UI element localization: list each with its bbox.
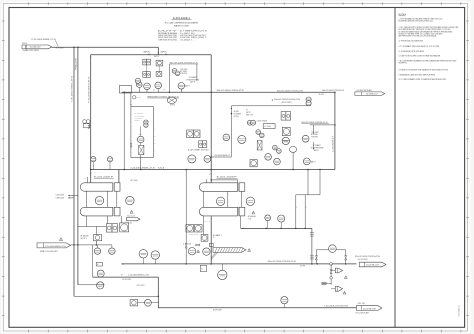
drop from manifold to drain x=96.3 — [95, 227, 97, 245]
pipe under center vessel B to outlet header — [240, 216, 242, 229]
svg-text:FLUSHING: FLUSHING — [234, 114, 242, 116]
pipe from analyzer to mixer — [140, 143, 142, 146]
PSV bypass loop top header — [316, 249, 345, 251]
svg-text:3. PHYSICAL NOTATIONS.: 3. PHYSICAL NOTATIONS. — [399, 40, 424, 43]
analyzer box with circle left drain — [94, 235, 102, 241]
controller box with circle — [201, 234, 208, 241]
svg-text:SC: SC — [97, 264, 99, 266]
svg-text:FCC GAS COMPRESSOR DISCHARGE: FCC GAS COMPRESSOR DISCHARGE — [165, 21, 199, 24]
vessel E-201D water cooler B — [199, 207, 244, 216]
instrument bubble FI — [265, 154, 272, 161]
instrument bubble above water header left 1 — [91, 157, 96, 162]
svg-text:7-20-2009-SMWL-2T-N: 7-20-2009-SMWL-2T-N — [72, 76, 74, 102]
instrument bubbles TI/TW pair — [247, 120, 252, 125]
static mixer column 2 — [257, 141, 262, 151]
off-page connector flag inlet from compressor — [26, 45, 52, 49]
svg-text:20-GGE-037: 20-GGE-037 — [363, 308, 376, 310]
svg-text:20-GGE-007: 20-GGE-007 — [30, 47, 41, 49]
warning triangle at left vessel outlet — [130, 210, 133, 213]
off-page flag drain to sewer — [37, 243, 71, 248]
instrument bubble BPT-31 — [178, 83, 185, 90]
instrument bubble PDT right — [303, 158, 310, 165]
nozzle stub top vessel C-A — [205, 179, 207, 183]
leader from riser to hatched flag — [211, 252, 216, 257]
svg-text:300-GT-2009-17051N-4T-N: 300-GT-2009-17051N-4T-N — [322, 90, 344, 92]
instrument bubbles with tag 1 — [188, 248, 195, 255]
PSV relief valve bubble — [329, 245, 337, 253]
instrument bubble near reducer — [135, 78, 140, 83]
vapor flow arrow 2 — [165, 53, 166, 55]
warning triangle above left off-page flag — [59, 238, 62, 241]
instrument bubbles right of outlet header — [265, 215, 271, 221]
instrument bubble above water header left 2 — [107, 157, 112, 162]
sample cooler box on drain riser — [96, 262, 102, 266]
nozzle stub top left vessel — [87, 177, 89, 183]
junction dots on flare header — [185, 263, 187, 265]
main gas header y=92.2 — [122, 91, 335, 93]
svg-text:300-GT-2009-17051N-4T-N: 300-GT-2009-17051N-4T-N — [217, 90, 244, 92]
riser V1 elbow line y=296.3 — [74, 295, 158, 297]
svg-text:NO POCKET: NO POCKET — [213, 310, 222, 312]
second valve near riser — [196, 244, 200, 246]
controller box FC-2009 — [263, 124, 275, 129]
inline flange on flare header — [330, 263, 333, 266]
alarm boxes pair center bottom — [186, 225, 194, 233]
instrument bubble FT — [274, 158, 281, 165]
down pipe x=92.7 to exchanger E-201A shell — [90, 55, 92, 183]
svg-text:TUB SUPP: TUB SUPP — [311, 132, 319, 134]
small circle above package box — [133, 96, 136, 99]
svg-text:SEE T 96: SEE T 96 — [246, 115, 253, 117]
svg-text:NOTE 4: NOTE 4 — [134, 120, 140, 122]
stacked pressure switch bubbles — [306, 97, 311, 102]
svg-text:GTC DVD: GTC DVD — [137, 285, 145, 287]
svg-text:BPV 2: BPV 2 — [136, 97, 141, 99]
under-vessel manifold y=226.5 — [78, 226, 108, 228]
svg-text:300-GT-2009-17051N-4T-N: 300-GT-2009-17051N-4T-N — [277, 90, 303, 92]
east riser x=334.9 down to water header — [334, 92, 336, 169]
vapor header y=54.8 — [91, 54, 212, 56]
svg-text:4"T: 4"T — [153, 90, 155, 92]
instrument bubble TV with actuator — [282, 137, 289, 144]
vapor flow arrow 1 — [148, 53, 149, 55]
instrument bubbles FE pair — [256, 130, 261, 135]
svg-text:SLOPE: SLOPE — [300, 266, 305, 268]
svg-text:4"T: 4"T — [296, 206, 298, 208]
svg-text:4 T = (2): 4 T = (2) — [183, 244, 192, 246]
cooling water supply stub with arrow — [68, 195, 78, 197]
vessel E-201A water cooler — [80, 183, 120, 191]
pipe under center vessel B x=203.5 — [203, 216, 205, 236]
leader line from label to pipe — [55, 40, 58, 46]
sample box under flare header junction — [200, 265, 206, 271]
cooling water return header y=169.5 — [118, 170, 120, 183]
instrument bubble TI between left vessels — [95, 196, 103, 204]
analyzer package box boundary — [131, 107, 153, 158]
instrument bubble PI right of left vessels — [126, 196, 134, 204]
instrument bubble at sewer header start — [145, 299, 152, 306]
switch boxes pair mid rack — [199, 141, 203, 148]
svg-text:E-201-E02E-1: E-201-E02E-1 — [173, 16, 191, 20]
feed pipe to vessel C-A — [211, 179, 238, 181]
svg-text:5. DIVIDERS PIPE DRYERS.: 5. DIVIDERS PIPE DRYERS. — [399, 51, 425, 53]
svg-text:TUBE SIDE (FOULING): TUBE SIDE (FOULING) — [158, 39, 177, 41]
notes column divider line — [394, 8, 396, 328]
inline flange 2 — [330, 277, 333, 280]
svg-text:4. TO FORWARD PIPE-LINE VALVE: 4. TO FORWARD PIPE-LINE VALVE OF TOP OF … — [399, 45, 440, 48]
riser V2 elbow line y=284.8 — [78, 284, 105, 286]
svg-text:NO POCKET: NO POCKET — [122, 279, 131, 281]
svg-text:8. PLATE NOT EXISTENT IF BE CA: 8. PLATE NOT EXISTENT IF BE CAPABLE IF I… — [399, 69, 449, 72]
warning triangle right of hatched flag — [248, 249, 251, 252]
instrument bubble PI-2009 — [144, 83, 151, 90]
small flag left vessel outlet — [127, 217, 141, 220]
svg-text:: 0.002 / -: : 0.002 / - — [179, 39, 196, 41]
sewer header y=307.7 — [158, 307, 356, 309]
inline box on main riser — [209, 243, 213, 246]
svg-text:NOTE 5: NOTE 5 — [234, 116, 240, 118]
valve cluster at drain bottom — [322, 282, 326, 284]
svg-text:4"T: 4"T — [306, 206, 308, 208]
svg-text:FOR PDM: FOR PDM — [311, 136, 318, 138]
svg-text:WATER COOLER: WATER COOLER — [174, 25, 189, 28]
instrument bubble on elbow line y=284.8 — [97, 282, 104, 289]
down pipe x=158.3 into vapor header — [157, 47, 159, 55]
instrument box PI — [156, 60, 163, 66]
svg-text:TO: TO — [246, 110, 248, 112]
instrument bubble under flare header — [218, 270, 227, 279]
pipe from reducer into package box — [130, 93, 132, 107]
svg-text:SC: SC — [201, 269, 203, 271]
svg-text:10. TO BE FORWARD PIPES TO WAS: 10. TO BE FORWARD PIPES TO WASTE EITHER … — [399, 78, 447, 81]
riser pipe x=71.9 cooling water — [73, 47, 75, 296]
main process riser x=211.2 — [210, 55, 212, 183]
vent bubbles on riser x=90.7 — [83, 120, 87, 124]
dual alarm box — [281, 112, 286, 120]
alarm boxes row under left vessels — [106, 224, 112, 232]
off-page flag to flare — [359, 262, 386, 267]
svg-text:7-20-2009-SMWL-2T: 7-20-2009-SMWL-2T — [214, 155, 231, 157]
jog header y=194.8 — [296, 194, 320, 196]
stub to PI bubble — [312, 125, 314, 134]
svg-text:FC/FO: FC/FO — [170, 104, 175, 106]
PSV bypass loop left leg — [315, 250, 317, 264]
vessel E-201B water cooler — [80, 207, 120, 216]
instrument bubbles PDT pair — [172, 69, 177, 74]
drain header elbow down x=158.3 — [157, 277, 159, 308]
transmitter box with circle — [282, 127, 290, 135]
svg-text:20-GGE-017: 20-GGE-017 — [366, 94, 378, 96]
warning triangle drain 1 — [344, 276, 347, 279]
instrument bubble mid rack 1 — [223, 134, 230, 141]
pipe from package to cooling water return header — [140, 155, 142, 170]
svg-text:CWR 2009: CWR 2009 — [56, 198, 65, 200]
double drop pipes right x=308/x=320 — [307, 170, 309, 195]
tube outlet header y=228.4 — [241, 227, 312, 229]
branch to instrument rack y=157 — [211, 156, 231, 158]
dotted signal line — [189, 233, 198, 235]
svg-text:20-GGE-027: 20-GGE-027 — [366, 265, 379, 267]
stacked bubbles in package box — [144, 120, 148, 124]
drain funnel box 2 — [331, 288, 335, 290]
alarm boxes pair mid rack — [187, 130, 194, 138]
svg-text:P-20-2009-SMWL-2T-N: P-20-2009-SMWL-2T-N — [32, 39, 56, 41]
svg-text:NOTE 3: NOTE 3 — [81, 238, 87, 240]
pipe inlet header y=47.3 — [52, 46, 159, 48]
stub manifold to box — [95, 241, 97, 245]
reducer box on main gas header left end — [119, 86, 131, 94]
instrument switch boxes PAH/PAL — [143, 59, 147, 65]
svg-text:NO(PRECISE) FLOW DWG-DWG-2-D.: NO(PRECISE) FLOW DWG-DWG-2-D. — [399, 21, 434, 23]
svg-text:SUFFIX.: SUFFIX. — [399, 63, 409, 65]
cooling water return stub with arrow — [68, 197, 74, 199]
instrument bubble TI-2009 — [155, 82, 162, 89]
oil mist off-page flag — [355, 92, 385, 96]
svg-text:NO POCKET: NO POCKET — [56, 48, 64, 50]
junction main riser at gas header — [210, 91, 212, 93]
control valve body oval — [167, 97, 176, 103]
svg-text:LP: LP — [213, 237, 215, 239]
hatched pressure relief flag — [213, 247, 246, 252]
svg-text:1-20-2009-SMWL-2T-N: 1-20-2009-SMWL-2T-N — [128, 275, 149, 277]
sample header y=105.8 — [231, 105, 311, 107]
interconnecting pipes between center vessels — [203, 191, 205, 207]
instrument bubble on sewer header right — [281, 297, 288, 304]
svg-text:2"T: 2"T — [84, 177, 86, 179]
stub with arrow TO GAUGE — [312, 142, 314, 149]
warning triangle drain 2 — [343, 291, 346, 294]
stub from box to bubble — [138, 302, 145, 304]
stub from bubble to elbow riser — [151, 302, 158, 304]
interconnecting pipes left vessels — [85, 191, 87, 207]
instrument bubble TI between center vessels — [216, 197, 224, 205]
pressure tap pipe x=169.4 — [168, 64, 170, 92]
svg-text:PSV 30: PSV 30 — [22, 43, 27, 45]
vessel E-201C water cooler A — [199, 183, 244, 192]
svg-text:(C) 2009 SET: (C) 2009 SET — [134, 115, 144, 117]
riser pipe x=76.5 — [77, 47, 79, 284]
svg-text:CWS 2009: CWS 2009 — [56, 194, 65, 196]
svg-text:4"T: 4"T — [94, 171, 96, 173]
svg-text:SLOPE: SLOPE — [319, 94, 324, 96]
static mixer hatched column — [139, 145, 144, 154]
svg-text:P-20-2009-SMWL-2T-N: P-20-2009-SMWL-2T-N — [45, 246, 66, 248]
svg-text:PSV 201: PSV 201 — [358, 303, 365, 305]
flare header y=263.9 — [122, 263, 357, 265]
warning triangle near outlet — [252, 211, 255, 214]
analyzer bubble ABC-1 — [137, 136, 144, 143]
instrument bubble PI right — [302, 135, 309, 142]
instrument bubble left drain 2 — [109, 248, 115, 254]
instrument bubble PI right of center vessels — [246, 197, 254, 205]
drop to flare header x=311.9 — [311, 228, 313, 264]
svg-text:300-GT-2009-17051N-4T-N: 300-GT-2009-17051N-4T-N — [268, 261, 296, 263]
pipe inside package box — [140, 126, 142, 136]
svg-text:TUB SUPP: TUB SUPP — [180, 69, 187, 71]
svg-text:P-20-2009-3000H-4T-N: P-20-2009-3000H-4T-N — [89, 77, 91, 103]
drain drop below flare header — [330, 264, 332, 285]
sample pipe x=196.9 with arrow — [196, 64, 198, 80]
svg-text:300-GT-2009-17051N-4T-N: 300-GT-2009-17051N-4T-N — [274, 99, 300, 101]
vent box on riser x=90.7 — [84, 124, 90, 128]
gate valve on drain drop — [330, 270, 332, 274]
svg-text:SLOPE: SLOPE — [234, 111, 239, 113]
branch pipe y=124.9 — [310, 124, 335, 126]
svg-text:2-20-2009-2T: 2-20-2009-2T — [333, 136, 335, 152]
spec break ticks on drop pipe — [310, 231, 314, 233]
drop pipes x=295.8/x=305.2 — [295, 195, 297, 229]
svg-text:D-20-2009-01: D-20-2009-01 — [459, 305, 461, 316]
svg-text:7-20-2009-17051N-4T-N: 7-20-2009-17051N-4T-N — [324, 306, 348, 308]
recorder box — [250, 160, 257, 167]
svg-text:9. ASSEMBLE CASE SUIT FIND SER: 9. ASSEMBLE CASE SUIT FIND SERVICE HERE. — [399, 73, 436, 76]
riser to sample header x=231.4 — [230, 106, 232, 157]
svg-text:FC 2009: FC 2009 — [264, 126, 271, 128]
off-page flag to sewer — [356, 306, 382, 311]
svg-text:4"T: 4"T — [121, 275, 123, 277]
svg-text:4"T: 4"T — [90, 173, 92, 175]
instrument bubble left drain 1 — [94, 248, 100, 254]
svg-text:6. TUBE TO BE SLOPED DOWN TO H: 6. TUBE TO BE SLOPED DOWN TO HEAT EXCHAN… — [399, 55, 441, 58]
svg-text:FOR PDM: FOR PDM — [180, 73, 187, 75]
instrument box row 2b — [156, 72, 162, 77]
valve on drop x=186.2 — [185, 170, 187, 264]
drain header y=277.1 — [93, 276, 159, 278]
junction dots on water header — [123, 169, 125, 171]
svg-text:SET PT: SET PT — [246, 112, 251, 114]
svg-text:BPV 2: BPV 2 — [154, 56, 159, 58]
spec break box at inlet — [22, 45, 26, 49]
svg-text:(NO POCKET): (NO POCKET) — [282, 102, 293, 104]
pipes under left vessel B — [85, 216, 87, 227]
instrument bubble mid rack 2 — [238, 135, 246, 143]
svg-text:4"T x 2: 4"T x 2 — [204, 221, 210, 223]
instrument switch boxes row 2 — [143, 72, 147, 78]
valve at package box left edge — [130, 144, 132, 147]
drain riser x=92.6 — [92, 245, 94, 277]
signal stubs between box rows — [146, 65, 148, 72]
instrument bubble PT on vapor header — [137, 82, 143, 88]
instrument bubbles TE pair — [273, 145, 278, 150]
svg-text:SEE PIPES DWG OR INTERLOCK-FLO: SEE PIPES DWG OR INTERLOCK-FLOW-ROW-A-B. — [399, 35, 437, 38]
svg-text:HC 2009: HC 2009 — [131, 180, 138, 182]
junction node on inlet header — [73, 47, 75, 49]
svg-text:4"T: 4"T — [163, 90, 165, 92]
instrument bubble on drain riser — [97, 270, 104, 277]
svg-text:300-GT-2009-17051N-4T-N: 300-GT-2009-17051N-4T-N — [355, 256, 380, 258]
instrument bubbles hanging on flare header — [139, 250, 147, 258]
inline valve oval — [290, 146, 297, 152]
gate valve right leg — [345, 256, 347, 260]
instrument bubble mid rack 3 — [188, 155, 196, 163]
drain funnel box 1 — [331, 270, 335, 272]
svg-text:(NO POCKET): (NO POCKET) — [358, 259, 369, 261]
box with circle at sewer header start — [130, 300, 138, 306]
svg-text:OIL MIST RETURN: OIL MIST RETURN — [356, 90, 371, 92]
svg-text:4"T: 4"T — [209, 174, 211, 176]
channel outlet pipe with arrow left vessels — [120, 216, 122, 229]
svg-text:2-20-2009-SMWL-2T-N: 2-20-2009-SMWL-2T-N — [131, 168, 155, 170]
gate valve left leg — [315, 256, 317, 260]
pipe from header box down x=124.2 — [123, 93, 125, 170]
instrument bubble mid rack 4 — [204, 156, 211, 163]
pipe from flag to drain riser — [71, 244, 113, 246]
PSV bypass loop right leg — [345, 250, 347, 264]
